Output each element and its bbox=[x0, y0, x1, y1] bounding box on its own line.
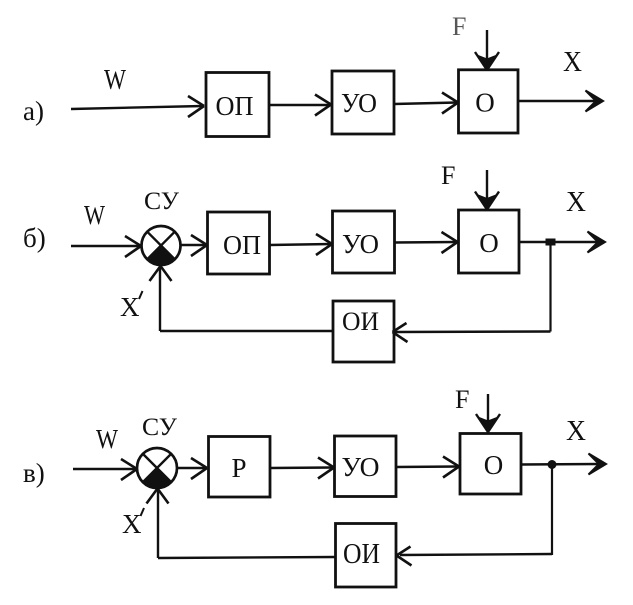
svg-text:X: X bbox=[563, 47, 582, 78]
wire F input (v) bbox=[476, 394, 500, 432]
block OI (v) bbox=[336, 524, 397, 588]
wire X output (b) bbox=[519, 232, 605, 253]
summing junction SU (v) bbox=[137, 448, 177, 488]
block OP (a) bbox=[206, 73, 269, 137]
block UO (v) bbox=[335, 436, 397, 497]
junction dot (v) bbox=[548, 460, 557, 469]
wire W input (b) bbox=[71, 236, 141, 257]
svg-text:ОИ: ОИ bbox=[342, 307, 379, 336]
block O (b) bbox=[459, 210, 520, 273]
wire feedback left horizontal (b) bbox=[160, 330, 333, 332]
wire F input (a) bbox=[475, 30, 499, 70]
block P (v) bbox=[209, 437, 271, 498]
wire feedback right horizontal (b) bbox=[393, 323, 551, 342]
svg-text:X: X bbox=[120, 292, 140, 322]
svg-text:F: F bbox=[441, 161, 455, 190]
wire UO-O (v) bbox=[396, 457, 459, 478]
svg-text:О: О bbox=[475, 88, 495, 118]
block O (v) bbox=[460, 434, 521, 495]
wire X output (a) bbox=[518, 91, 603, 112]
wire UO-O (a) bbox=[394, 93, 458, 114]
svg-text:а): а) bbox=[23, 96, 44, 126]
wire feedback up into SU (v) bbox=[147, 489, 169, 559]
svg-text:F: F bbox=[455, 385, 469, 414]
summing junction SU (b) bbox=[142, 226, 181, 265]
wire W input (v) bbox=[73, 459, 137, 480]
svg-text:О: О bbox=[479, 228, 499, 258]
wire feedback right horizontal (v) bbox=[397, 547, 553, 566]
svg-text:СУ: СУ bbox=[142, 414, 177, 441]
wire feedback down (b) bbox=[549, 243, 551, 332]
svg-text:б): б) bbox=[23, 223, 46, 253]
node X' (b) bbox=[120, 291, 143, 322]
svg-text:W: W bbox=[96, 424, 118, 454]
wire F input (b) bbox=[475, 170, 499, 210]
svg-text:в): в) bbox=[23, 458, 45, 488]
wire SU-OP (b) bbox=[181, 235, 208, 256]
wire feedback down (v) bbox=[551, 464, 553, 555]
svg-text:ОИ: ОИ bbox=[343, 539, 380, 570]
svg-text:УО: УО bbox=[342, 452, 380, 482]
svg-text:УО: УО bbox=[342, 229, 379, 259]
block UO (b) bbox=[333, 211, 395, 273]
svg-text:СУ: СУ bbox=[144, 188, 179, 215]
svg-text:ОП: ОП bbox=[223, 230, 261, 260]
wire X output (v) bbox=[521, 454, 606, 475]
svg-text:F: F bbox=[452, 12, 466, 41]
wire SU-P (v) bbox=[177, 458, 207, 479]
node X' (v) bbox=[122, 508, 144, 539]
wire OP-UO (b) bbox=[270, 234, 333, 255]
svg-text:W: W bbox=[104, 64, 127, 96]
svg-text:W: W bbox=[84, 200, 105, 230]
svg-text:X: X bbox=[566, 416, 586, 447]
wire P-UO (v) bbox=[270, 458, 334, 479]
junction tick (b) bbox=[546, 239, 556, 246]
wire OP-UO (a) bbox=[270, 95, 331, 116]
svg-text:ОП: ОП bbox=[216, 91, 254, 121]
block O (a) bbox=[459, 70, 519, 133]
svg-text:X: X bbox=[566, 187, 586, 218]
wire feedback up into SU (b) bbox=[150, 266, 172, 331]
svg-text:Р: Р bbox=[231, 453, 246, 483]
wire W input (a) bbox=[71, 96, 204, 117]
block OI (b) bbox=[333, 301, 394, 362]
svg-text:УО: УО bbox=[341, 88, 377, 118]
block OP (b) bbox=[208, 212, 270, 274]
block UO (a) bbox=[332, 71, 394, 134]
wire feedback left horizontal (v) bbox=[158, 557, 336, 558]
svg-text:X: X bbox=[122, 509, 142, 539]
wire UO-O (b) bbox=[395, 232, 458, 253]
svg-text:О: О bbox=[484, 450, 504, 480]
